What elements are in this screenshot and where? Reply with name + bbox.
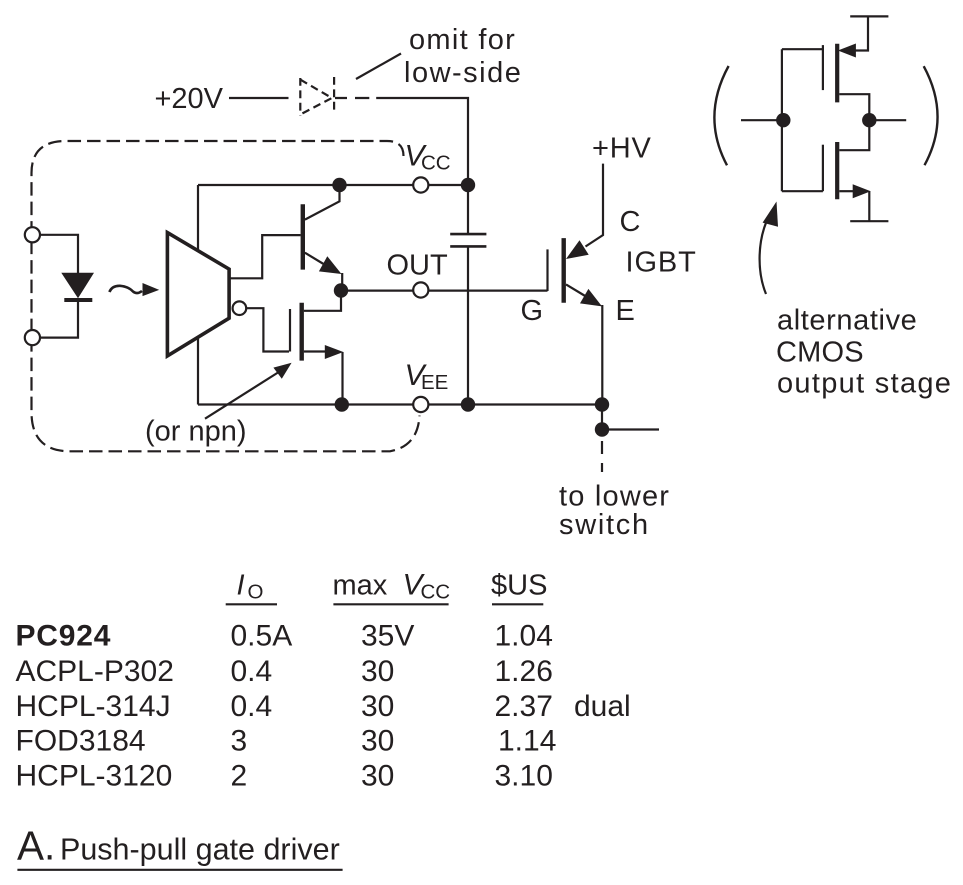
junction output xyxy=(862,113,876,127)
inversion bubble xyxy=(233,301,247,315)
svg-text:to lower: to lower xyxy=(559,480,670,512)
wire emitter to lower node xyxy=(601,405,603,430)
svg-text:CMOS: CMOS xyxy=(776,337,864,369)
nmos drain wire xyxy=(839,120,869,150)
CMOS V+ rail xyxy=(850,15,888,17)
VEE terminal xyxy=(413,397,428,412)
VCC rail xyxy=(198,184,468,186)
VCC terminal xyxy=(413,177,428,192)
svg-text:C: C xyxy=(620,206,641,238)
svg-text:HCPL-3120: HCPL-3120 xyxy=(16,760,173,793)
junction VCC collector xyxy=(332,178,346,192)
diode D1 dashed (omit for low-side) xyxy=(300,77,334,116)
transistor Q5 nmos channel bar xyxy=(835,142,839,199)
wire LED to cathode terminal xyxy=(41,302,78,338)
wire amp to VEE supply xyxy=(197,338,199,405)
wire diode to VCC vertical xyxy=(335,98,468,185)
wire to load xyxy=(602,428,659,430)
label VCC xyxy=(405,140,451,175)
VEE rail xyxy=(198,403,602,405)
junction VEE Q2 xyxy=(335,397,349,411)
svg-text:CC: CC xyxy=(421,581,451,604)
svg-text:dual: dual xyxy=(574,690,631,723)
right parenthesis xyxy=(924,66,938,165)
svg-text:1.14: 1.14 xyxy=(498,725,556,758)
wire bubble to Q2 gate xyxy=(246,308,289,351)
svg-text:0.4: 0.4 xyxy=(231,690,273,723)
svg-text:+HV: +HV xyxy=(592,133,652,165)
input terminal cathode xyxy=(25,330,40,345)
svg-text:I: I xyxy=(237,570,245,602)
svg-text:G: G xyxy=(521,295,544,327)
wire anode to LED xyxy=(41,235,78,273)
pmos drain wire xyxy=(839,94,869,120)
light coupling arrow xyxy=(109,286,142,293)
LED D2 xyxy=(62,273,93,297)
svg-text:O: O xyxy=(248,581,264,604)
svg-text:low-side: low-side xyxy=(404,57,522,89)
wire amp output to Q1 base xyxy=(229,235,301,278)
wire +20V to diode xyxy=(229,97,289,99)
pmos Q4 source arrow xyxy=(838,44,856,58)
svg-text:max: max xyxy=(333,570,388,602)
junction VEE cap xyxy=(461,397,475,411)
IGBT collector arrow xyxy=(566,240,589,259)
junction emitter VEE xyxy=(595,397,609,411)
table row PC924 xyxy=(16,620,553,653)
input node wire xyxy=(741,119,783,121)
curved arrow to CMOS stage xyxy=(760,216,769,294)
junction OUT xyxy=(334,283,348,297)
svg-text:2.37: 2.37 xyxy=(495,690,553,723)
svg-text:OUT: OUT xyxy=(387,250,449,282)
transistor Q3 IGBT gate bar xyxy=(546,249,548,291)
svg-text:alternative: alternative xyxy=(777,305,917,337)
output node wire xyxy=(869,119,906,121)
table header IO xyxy=(237,570,264,604)
callout line for omit label xyxy=(356,54,401,80)
svg-text:output stage: output stage xyxy=(777,368,952,400)
table header underline maxVCC xyxy=(333,603,448,605)
svg-text:30: 30 xyxy=(361,690,394,723)
table row HCPL-3120 xyxy=(16,760,553,793)
svg-text:35V: 35V xyxy=(361,620,414,653)
svg-text:omit for: omit for xyxy=(409,24,516,56)
caption underline xyxy=(17,869,342,871)
left parenthesis xyxy=(714,66,728,165)
junction lower switch node xyxy=(595,422,609,436)
svg-text:1.26: 1.26 xyxy=(495,655,553,688)
CMOS V- rail xyxy=(850,220,888,222)
svg-text:1.04: 1.04 xyxy=(495,620,553,653)
junction input xyxy=(776,113,790,127)
wire +HV to collector xyxy=(586,164,604,247)
svg-text:CC: CC xyxy=(421,152,451,175)
table row FOD3184 xyxy=(16,725,557,758)
svg-text:ACPL-P302: ACPL-P302 xyxy=(16,655,174,688)
svg-text:0.5A: 0.5A xyxy=(231,620,293,653)
label VEE xyxy=(405,359,449,394)
OUT terminal xyxy=(413,282,428,297)
svg-text:E: E xyxy=(616,295,635,327)
svg-text:30: 30 xyxy=(361,725,394,758)
svg-text:2: 2 xyxy=(231,760,248,793)
table row HCPL-314J xyxy=(16,690,631,723)
svg-text:EE: EE xyxy=(421,371,448,394)
table header underline IO xyxy=(226,603,277,605)
svg-text:IGBT: IGBT xyxy=(626,247,697,279)
svg-text:+20V: +20V xyxy=(154,83,223,115)
IGBT emitter xyxy=(566,284,586,296)
transistor Q2 pmos xyxy=(289,309,291,352)
transistor Q3 IGBT channel bar xyxy=(562,238,566,303)
table header max VCC xyxy=(333,569,451,604)
svg-text:switch: switch xyxy=(559,509,650,541)
svg-text:(or npn): (or npn) xyxy=(145,416,247,448)
input terminal anode xyxy=(25,227,40,242)
junction VCC cap xyxy=(461,178,475,192)
svg-text:PC924: PC924 xyxy=(16,620,112,653)
transistor Q1 npn xyxy=(301,204,305,269)
wire rail to pmos source xyxy=(852,16,868,50)
dashed wire to lower switch xyxy=(601,441,603,472)
svg-text:HCPL-314J: HCPL-314J xyxy=(16,690,171,723)
op-amp U1 buffer xyxy=(167,233,229,356)
gate bus xyxy=(782,49,823,191)
arrow to Q2 xyxy=(205,373,278,419)
optocoupler package dashed outline xyxy=(32,141,420,451)
svg-text:A.: A. xyxy=(17,823,55,869)
nmos source wire + arrow xyxy=(839,190,853,192)
svg-text:Push-pull gate driver: Push-pull gate driver xyxy=(60,833,340,867)
transistor Q4 pmos channel bar xyxy=(835,44,839,103)
wire VCC supply to amp xyxy=(197,185,199,250)
svg-text:30: 30 xyxy=(361,655,394,688)
svg-text:30: 30 xyxy=(361,760,394,793)
svg-text:$US: $US xyxy=(491,570,547,602)
capacitor C1 xyxy=(467,185,469,405)
svg-text:3.10: 3.10 xyxy=(495,760,553,793)
svg-text:3: 3 xyxy=(231,725,248,758)
caption A. Push-pull gate driver xyxy=(17,823,340,869)
transistor Q5 nmos gate bar xyxy=(822,145,824,192)
svg-text:FOD3184: FOD3184 xyxy=(16,725,146,758)
table row ACPL-P302 xyxy=(16,655,553,688)
OUT rail xyxy=(341,290,548,292)
transistor Q4 pmos gate bar xyxy=(822,45,824,90)
table header underline $US xyxy=(492,603,543,605)
svg-text:0.4: 0.4 xyxy=(231,655,273,688)
